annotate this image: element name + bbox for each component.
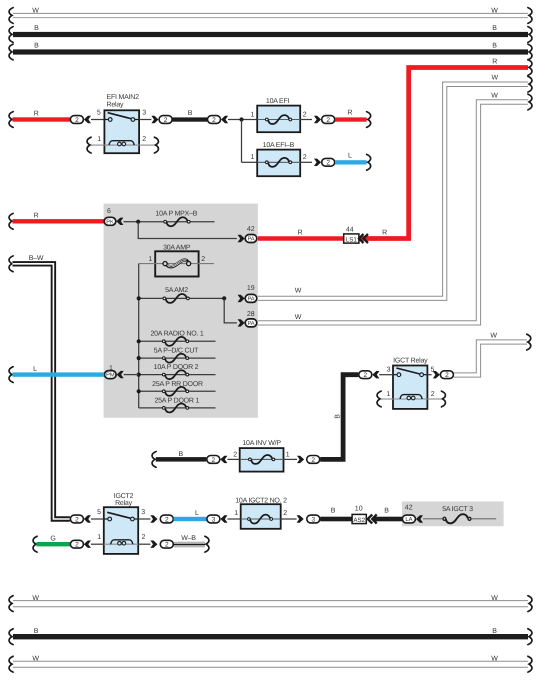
svg-text:30A AMP: 30A AMP: [163, 244, 191, 251]
svg-text:3: 3: [387, 366, 391, 373]
connector 3 after IGCT2 NO. 2: [281, 515, 320, 523]
svg-text:2: 2: [445, 372, 449, 379]
svg-text:2: 2: [165, 542, 169, 549]
connector 2 at IGCT2 pin 1: [70, 540, 103, 548]
svg-text:2: 2: [164, 117, 168, 124]
wire R to EFI MAIN2 relay: [9, 111, 70, 128]
wire to PA 19: [238, 295, 245, 302]
connector 2 and wire R after 10A EFI: [300, 110, 370, 128]
connector LS1 44: [344, 226, 359, 243]
svg-text:2: 2: [75, 117, 79, 124]
svg-text:L: L: [195, 510, 199, 517]
svg-text:25A P RR DOOR: 25A P RR DOOR: [152, 381, 203, 388]
svg-text:2: 2: [363, 372, 367, 379]
connector 2 at IGCT2 pin 5: [70, 515, 103, 523]
fuse 25A P RR DOOR: [137, 381, 216, 396]
junction dot and branch to EFI-B: [239, 117, 257, 162]
svg-text:2: 2: [303, 154, 307, 161]
svg-text:W: W: [32, 655, 39, 662]
svg-text:2: 2: [283, 510, 287, 517]
svg-text:W: W: [32, 595, 39, 602]
svg-text:W: W: [295, 288, 302, 295]
svg-text:W–B: W–B: [181, 535, 196, 542]
fuse 10A EFI-B: [251, 142, 307, 176]
wire L to PM: [9, 366, 104, 382]
fuse 10A EFI: [251, 98, 307, 132]
svg-text:AS2: AS2: [353, 517, 365, 524]
svg-text:2: 2: [212, 117, 216, 124]
wire branch to PA 28: [224, 298, 245, 326]
fuse 5A P-D/C CUT: [137, 346, 216, 362]
svg-text:10A EFI: 10A EFI: [266, 98, 290, 105]
svg-text:IGCT2: IGCT2: [114, 493, 134, 500]
svg-text:25A P DOOR 1: 25A P DOOR 1: [154, 398, 199, 405]
svg-text:1: 1: [251, 154, 255, 161]
brace at EFI relay pin 1: [87, 137, 104, 153]
svg-text:10A P MPX–B: 10A P MPX–B: [155, 211, 197, 218]
connector 2 at INV W/P right: [284, 456, 320, 464]
relay IGCT2: [97, 493, 145, 554]
wire B to LA: [373, 508, 403, 522]
connector PA 28: [245, 311, 257, 327]
svg-text:2: 2: [431, 391, 435, 398]
svg-text:L: L: [348, 153, 352, 160]
svg-text:B: B: [492, 628, 497, 635]
svg-text:PK: PK: [106, 219, 114, 225]
svg-text:1: 1: [251, 111, 255, 118]
svg-text:2: 2: [303, 111, 307, 118]
svg-text:5: 5: [97, 509, 101, 516]
wire W right upper (from PA19): [258, 82, 529, 300]
brace at IGCT relay pin 2: [427, 391, 445, 407]
svg-text:1: 1: [97, 136, 101, 143]
fuse 10A INV W/P: [233, 439, 290, 471]
svg-text:EFI MAIN2: EFI MAIN2: [107, 94, 140, 101]
svg-text:3: 3: [311, 516, 315, 523]
svg-text:3: 3: [142, 110, 146, 117]
relay EFI MAIN2: [97, 94, 146, 153]
svg-text:B: B: [384, 508, 389, 515]
svg-text:PA: PA: [248, 321, 255, 327]
wire B bottom: [9, 628, 532, 645]
fuse 20A RADIO NO. 1: [137, 331, 216, 346]
wire B top 2: [9, 43, 532, 60]
bus wire vertical: [138, 264, 140, 408]
svg-text:10A P DOOR 2: 10A P DOOR 2: [154, 364, 199, 371]
svg-text:W: W: [295, 314, 302, 321]
brace at EFI relay pin 2: [139, 137, 158, 153]
wire W bottom 1: [9, 595, 532, 612]
svg-text:L: L: [33, 366, 37, 373]
svg-text:R: R: [34, 213, 39, 220]
fuse 10A IGCT2 NO. 2: [234, 498, 287, 529]
svg-text:2: 2: [311, 457, 315, 464]
svg-text:5A IGCT 3: 5A IGCT 3: [442, 506, 473, 513]
svg-text:1: 1: [148, 256, 152, 263]
connector 2 and wire L at IGCT2 pin 3: [138, 510, 241, 524]
wire B to INV W/P fuse: [152, 451, 206, 467]
svg-text:1: 1: [286, 451, 290, 458]
relay IGCT: [386, 356, 434, 409]
svg-text:1: 1: [386, 391, 390, 398]
wire W top: [9, 8, 532, 24]
svg-text:2: 2: [75, 516, 79, 523]
connector LA 42: [402, 505, 442, 523]
svg-text:Relay: Relay: [107, 101, 125, 109]
svg-text:10A INV W/P: 10A INV W/P: [242, 439, 281, 447]
svg-text:1: 1: [234, 510, 238, 517]
svg-text:Relay: Relay: [115, 499, 133, 507]
svg-text:W: W: [491, 595, 498, 602]
svg-text:IGCT Relay: IGCT Relay: [393, 356, 428, 364]
wire R main (PA42 to LS1, LS1 to top right brace): [258, 59, 532, 239]
svg-text:28: 28: [247, 311, 255, 318]
connector PK pin 6: [104, 208, 138, 225]
wire B from IGCT relay down to INV W/P: [320, 375, 358, 460]
svg-text:B: B: [334, 414, 341, 419]
svg-text:W: W: [491, 93, 498, 100]
svg-text:PM: PM: [106, 373, 115, 379]
connector 2 at EFI relay pin 5: [70, 116, 104, 124]
connector AS2 10: [352, 506, 366, 524]
svg-text:B: B: [178, 451, 183, 458]
svg-text:2: 2: [142, 136, 146, 143]
svg-text:B: B: [34, 628, 39, 635]
wire R to PK: [9, 213, 104, 230]
svg-text:W: W: [32, 8, 39, 15]
svg-text:W: W: [491, 655, 498, 662]
svg-text:B: B: [34, 25, 39, 32]
svg-text:2: 2: [75, 542, 79, 549]
svg-text:20A RADIO NO. 1: 20A RADIO NO. 1: [150, 331, 203, 338]
brace at IGCT relay pin 1: [377, 391, 393, 407]
svg-text:R: R: [382, 229, 387, 236]
junction block gray box: [104, 204, 258, 418]
svg-text:LS1: LS1: [346, 236, 358, 243]
svg-text:1: 1: [97, 534, 101, 541]
svg-text:2: 2: [201, 256, 205, 263]
svg-text:44: 44: [346, 226, 354, 233]
svg-text:R: R: [298, 229, 303, 236]
double arrow at AS2: [368, 515, 377, 524]
connector 2 at INV W/P left: [207, 456, 240, 464]
fuse 10A P MPX-B: [138, 211, 214, 227]
wire B from EFI relay pin 3: [139, 110, 257, 124]
wire W bottom 2: [9, 655, 532, 672]
fuse 30A AMP: [139, 244, 214, 276]
svg-text:2: 2: [233, 451, 237, 458]
svg-text:R: R: [492, 59, 497, 66]
svg-text:42: 42: [247, 226, 255, 233]
svg-text:W: W: [490, 332, 497, 339]
double arrow at LS1: [359, 234, 368, 243]
wire W right lower (from PA28): [258, 100, 529, 325]
svg-text:PA: PA: [248, 296, 255, 302]
svg-text:LA: LA: [405, 517, 412, 523]
connector 2 at IGCT relay pin 3: [359, 371, 393, 379]
gray box 2: [402, 502, 504, 527]
wire G at IGCT2 pin 1: [33, 535, 70, 552]
fuse 25A P DOOR 1: [139, 398, 216, 413]
fuse 10A P DOOR 2: [137, 364, 216, 379]
svg-text:2: 2: [165, 516, 169, 523]
svg-text:2: 2: [326, 117, 330, 124]
connector 2 and wire W-B at IGCT2 pin 2: [138, 535, 209, 552]
svg-text:3: 3: [212, 516, 216, 523]
svg-text:G: G: [50, 535, 55, 542]
connector 2 at IGCT relay pin 5: [427, 371, 453, 379]
wire to PA 42: [138, 222, 245, 243]
svg-text:6: 6: [107, 208, 111, 215]
svg-text:B: B: [188, 110, 193, 117]
svg-text:B: B: [34, 43, 39, 50]
svg-text:PA: PA: [248, 237, 255, 243]
junction dot at MPX-B: [136, 220, 140, 224]
svg-text:R: R: [347, 110, 352, 117]
connector 2 and wire L after 10A EFI-B: [300, 153, 370, 171]
fuse 5A AM2: [137, 287, 227, 303]
svg-text:2: 2: [142, 534, 146, 541]
svg-text:2: 2: [211, 457, 215, 464]
svg-text:2: 2: [326, 160, 330, 167]
svg-text:B: B: [492, 43, 497, 50]
svg-text:42: 42: [405, 505, 413, 512]
svg-text:B: B: [492, 25, 497, 32]
connector PA 19: [245, 285, 257, 303]
svg-text:10A EFI–B: 10A EFI–B: [263, 142, 295, 149]
wire B to AS2: [320, 508, 352, 522]
svg-text:W: W: [491, 8, 498, 15]
wire B-W: [9, 255, 70, 519]
wire B top 1: [9, 25, 532, 42]
svg-text:B–W: B–W: [29, 255, 44, 262]
svg-text:R: R: [34, 111, 39, 118]
connector PA 42: [245, 226, 257, 243]
svg-text:10: 10: [355, 506, 363, 513]
svg-text:3: 3: [141, 509, 145, 516]
fuse 5A IGCT 3: [442, 506, 496, 523]
connector PM pin 1: [105, 365, 139, 379]
svg-text:W: W: [492, 75, 499, 82]
svg-text:5: 5: [97, 110, 101, 117]
svg-text:19: 19: [247, 285, 255, 292]
svg-text:B: B: [331, 508, 336, 515]
wire W to IGCT relay pin 5: [454, 340, 527, 377]
svg-text:5A P–D/C CUT: 5A P–D/C CUT: [154, 346, 199, 354]
svg-text:5A AM2: 5A AM2: [165, 287, 188, 294]
